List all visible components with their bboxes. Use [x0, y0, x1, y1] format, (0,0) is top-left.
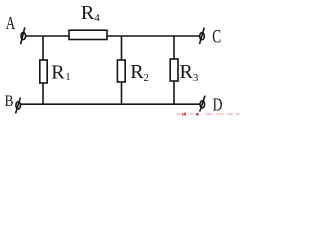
wire bottom rail B to D — [21, 103, 200, 105]
wire R3 branch — [173, 36, 175, 104]
wire R1 branch — [42, 36, 44, 104]
terminal B — [16, 98, 21, 114]
svg-text:C: C — [212, 27, 221, 47]
resistor R4 — [69, 30, 107, 39]
svg-text:D: D — [213, 96, 223, 115]
terminal A — [21, 27, 26, 44]
svg-text:B: B — [5, 93, 14, 110]
wire top rail A to C — [26, 35, 200, 37]
terminal D — [200, 96, 205, 112]
svg-text:A: A — [6, 14, 16, 33]
resistor R2 — [117, 60, 125, 82]
terminal C — [200, 28, 205, 44]
resistor R1 — [40, 60, 47, 83]
resistor R3 — [170, 59, 178, 81]
wire R2 branch — [121, 36, 123, 104]
